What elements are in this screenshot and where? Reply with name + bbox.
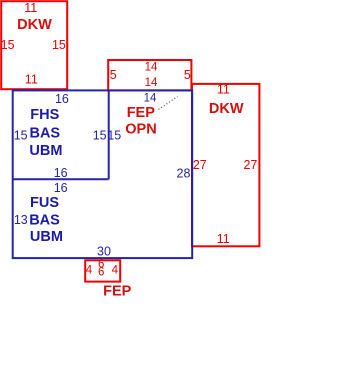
DKW deck rect right bbox=[192, 84, 259, 246]
svg-text:15: 15 bbox=[93, 128, 107, 142]
svg-text:15: 15 bbox=[107, 128, 121, 142]
small dims: porch 14s and bottom FEP rect bbox=[86, 62, 158, 279]
svg-text:11: 11 bbox=[217, 83, 230, 97]
svg-text:11: 11 bbox=[217, 232, 230, 246]
svg-text:14: 14 bbox=[144, 92, 157, 104]
svg-text:FUS: FUS bbox=[30, 195, 59, 211]
svg-text:DKW: DKW bbox=[17, 17, 52, 33]
partition vertical bbox=[108, 90, 110, 179]
svg-text:FHS: FHS bbox=[30, 107, 59, 123]
svg-text:27: 27 bbox=[193, 158, 207, 172]
svg-text:6: 6 bbox=[98, 267, 104, 279]
svg-text:11: 11 bbox=[25, 73, 38, 87]
svg-text:16: 16 bbox=[54, 166, 68, 180]
svg-text:15: 15 bbox=[1, 38, 15, 52]
svg-text:16: 16 bbox=[54, 181, 68, 195]
blue area labels bbox=[29, 107, 63, 245]
svg-text:16: 16 bbox=[55, 92, 69, 106]
svg-text:BAS: BAS bbox=[29, 126, 60, 142]
svg-text:DKW: DKW bbox=[209, 101, 244, 117]
FEP porch rect bottom bbox=[85, 260, 120, 281]
svg-text:5: 5 bbox=[110, 68, 117, 82]
svg-text:11: 11 bbox=[24, 1, 37, 15]
red area labels bbox=[17, 17, 244, 299]
svg-text:4: 4 bbox=[86, 264, 93, 276]
dotted leader line FEP OPN bbox=[159, 97, 178, 110]
svg-text:13: 13 bbox=[14, 213, 28, 227]
blue small dim 14 bbox=[144, 92, 157, 104]
DKW deck rect top-left bbox=[1, 1, 67, 89]
svg-text:14: 14 bbox=[145, 77, 158, 89]
main blue outline bbox=[13, 90, 193, 258]
svg-text:UBM: UBM bbox=[29, 143, 62, 159]
blue dimension digits bbox=[14, 92, 191, 258]
partition horizontal bbox=[13, 178, 109, 180]
svg-text:5: 5 bbox=[184, 68, 191, 82]
svg-text:FEP: FEP bbox=[127, 105, 156, 121]
svg-text:30: 30 bbox=[97, 244, 111, 258]
svg-text:BAS: BAS bbox=[29, 213, 60, 229]
svg-text:UBM: UBM bbox=[30, 229, 63, 245]
svg-text:28: 28 bbox=[177, 166, 191, 180]
svg-text:15: 15 bbox=[52, 38, 66, 52]
red dimension digits bbox=[1, 1, 258, 246]
FEP porch rect top-middle bbox=[108, 60, 191, 90]
svg-text:14: 14 bbox=[145, 62, 158, 74]
svg-text:4: 4 bbox=[112, 264, 119, 276]
svg-text:FEP: FEP bbox=[103, 284, 132, 300]
svg-text:OPN: OPN bbox=[125, 121, 156, 137]
svg-text:15: 15 bbox=[14, 128, 28, 142]
svg-text:27: 27 bbox=[243, 158, 257, 172]
